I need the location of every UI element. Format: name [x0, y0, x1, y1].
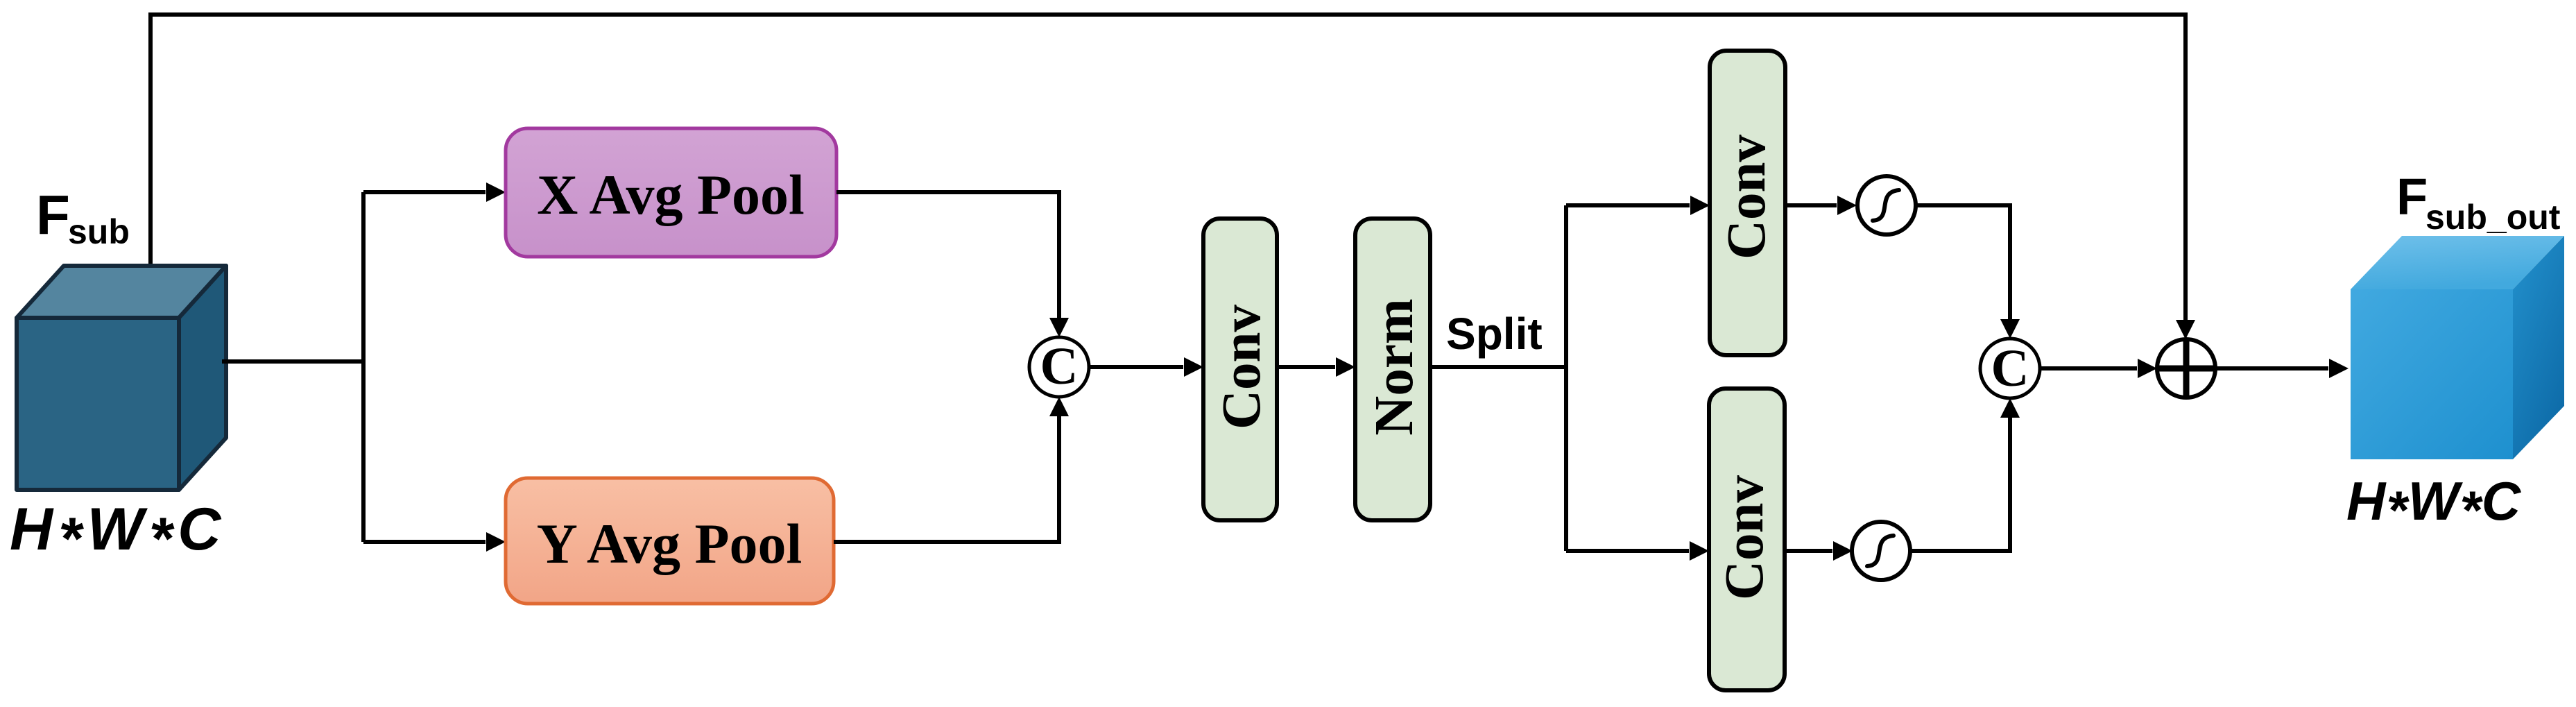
wire adder to output cube	[2215, 366, 2328, 370]
adder node	[2157, 339, 2215, 398]
wire C1 to Conv	[1089, 365, 1183, 369]
X Avg Pool box	[506, 128, 836, 257]
Conv box 1	[1203, 219, 1277, 520]
svg-text:sub: sub	[68, 212, 130, 251]
wire cube to branch	[222, 359, 363, 364]
Conv box bottom	[1709, 389, 1785, 690]
sigmoid node 1	[1857, 176, 1916, 235]
input cube F_sub top face	[17, 266, 226, 318]
Norm box	[1355, 219, 1430, 520]
wire split to Conv top	[1566, 203, 1690, 207]
svg-text:Y Avg Pool: Y Avg Pool	[537, 512, 802, 575]
wire branch to X Avg Pool	[363, 190, 486, 194]
Y Avg Pool box	[506, 478, 834, 604]
svg-text:Conv: Conv	[1212, 305, 1272, 429]
svg-text:sub_out: sub_out	[2425, 198, 2561, 237]
Conv box top	[1710, 51, 1785, 355]
input cube F_sub right face	[179, 266, 226, 490]
wire Norm to split junction	[1430, 365, 1566, 369]
svg-text:F: F	[36, 184, 70, 246]
concat node C2	[1980, 339, 2040, 398]
svg-text:Norm: Norm	[1364, 298, 1425, 435]
output cube F_sub_out top face	[2351, 236, 2564, 289]
svg-text:Split: Split	[1446, 309, 1543, 359]
svg-text:H*W*C: H*W*C	[2346, 470, 2522, 540]
wire sigmoid 2 to C2	[1910, 406, 2010, 551]
wire Conv top to sigmoid 1	[1785, 203, 1837, 207]
concat node C1	[1029, 337, 1089, 397]
top feedback wire	[151, 15, 2186, 332]
svg-text:Conv: Conv	[1715, 475, 1775, 600]
wire C2 to adder	[2040, 366, 2137, 370]
wire Y Avg Pool to concat C1	[834, 404, 1059, 542]
sigmoid node 2	[1852, 522, 1910, 580]
wire Conv bottom to sigmoid 2	[1785, 549, 1832, 553]
input cube F_sub front face	[17, 318, 179, 490]
wire branch to Y Avg Pool	[363, 540, 486, 544]
svg-text:C: C	[1040, 337, 1079, 395]
svg-text:Conv: Conv	[1717, 135, 1777, 259]
wire sigmoid 1 to C2	[1914, 205, 2010, 331]
svg-text:C: C	[1991, 339, 2029, 398]
svg-text:H*W*C: H*W*C	[10, 496, 226, 572]
wire Conv to Norm	[1277, 365, 1335, 369]
svg-text:X Avg Pool: X Avg Pool	[537, 163, 805, 226]
output cube F_sub_out right face	[2513, 236, 2564, 459]
wire split to Conv bottom	[1566, 549, 1689, 553]
wire X Avg Pool to concat C1	[836, 192, 1059, 330]
wire branch vertical	[361, 192, 366, 542]
wire split vertical	[1564, 205, 1568, 551]
output cube F_sub_out front face	[2351, 289, 2513, 459]
arrowhead into adder from top	[2176, 320, 2195, 339]
svg-text:F: F	[2396, 168, 2428, 225]
